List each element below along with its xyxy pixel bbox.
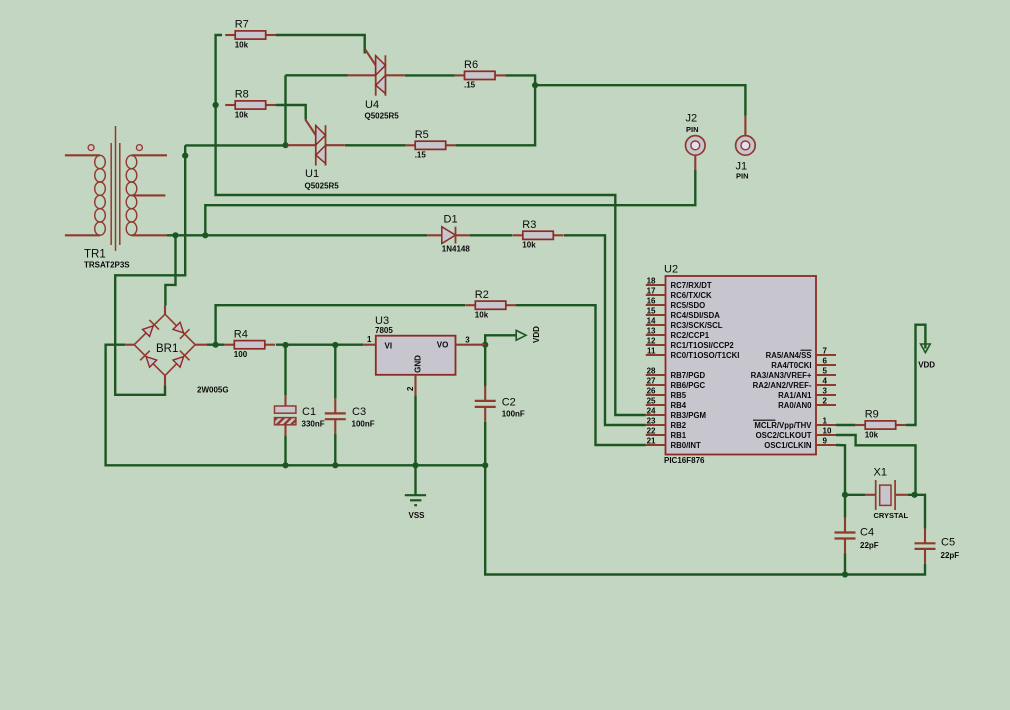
svg-text:MCLR/Vpp/THV: MCLR/Vpp/THV <box>754 421 812 430</box>
svg-text:18: 18 <box>647 277 656 286</box>
svg-text:X1: X1 <box>874 467 887 479</box>
svg-text:.15: .15 <box>415 151 427 160</box>
svg-text:RC0/T1OSO/T1CKI: RC0/T1OSO/T1CKI <box>671 351 740 360</box>
svg-text:1: 1 <box>367 335 372 344</box>
svg-text:24: 24 <box>647 407 656 416</box>
svg-text:OSC2/CLKOUT: OSC2/CLKOUT <box>756 431 812 440</box>
svg-text:4: 4 <box>823 377 828 386</box>
svg-text:3: 3 <box>465 336 470 345</box>
svg-text:RA0/AN0: RA0/AN0 <box>778 401 812 410</box>
svg-text:15: 15 <box>647 307 656 316</box>
svg-text:RC2/CCP1: RC2/CCP1 <box>671 331 710 340</box>
svg-text:RB2: RB2 <box>671 421 687 430</box>
svg-text:RC5/SDO: RC5/SDO <box>671 301 706 310</box>
svg-text:3: 3 <box>823 387 828 396</box>
svg-text:25: 25 <box>647 397 656 406</box>
svg-text:10k: 10k <box>475 311 489 320</box>
svg-text:1N4148: 1N4148 <box>442 245 471 254</box>
svg-text:28: 28 <box>647 367 656 376</box>
svg-text:Q5025R5: Q5025R5 <box>365 112 400 121</box>
svg-text:PIN: PIN <box>686 125 699 134</box>
svg-text:RB6/PGC: RB6/PGC <box>671 381 706 390</box>
svg-text:10k: 10k <box>235 40 249 49</box>
svg-text:10k: 10k <box>522 241 536 250</box>
svg-text:PIN: PIN <box>736 171 749 180</box>
svg-text:R5: R5 <box>415 129 429 141</box>
svg-text:22pF: 22pF <box>860 541 879 550</box>
svg-text:RA4/T0CKI: RA4/T0CKI <box>771 361 811 370</box>
svg-text:BR1: BR1 <box>156 343 178 355</box>
svg-text:RB3/PGM: RB3/PGM <box>671 411 707 420</box>
svg-text:.15: .15 <box>464 81 476 90</box>
svg-text:100nF: 100nF <box>502 409 525 418</box>
svg-text:R3: R3 <box>522 219 536 231</box>
svg-text:10k: 10k <box>865 430 879 439</box>
svg-text:14: 14 <box>647 317 656 326</box>
svg-text:RC3/SCK/SCL: RC3/SCK/SCL <box>671 321 723 330</box>
svg-text:RC6/TX/CK: RC6/TX/CK <box>671 291 713 300</box>
svg-text:C3: C3 <box>352 406 366 418</box>
svg-text:5: 5 <box>823 367 828 376</box>
svg-text:21: 21 <box>647 437 656 446</box>
svg-text:C4: C4 <box>860 527 874 539</box>
svg-text:Q5025R5: Q5025R5 <box>305 182 340 191</box>
svg-text:RB5: RB5 <box>671 391 687 400</box>
svg-text:10k: 10k <box>235 110 249 119</box>
svg-text:6: 6 <box>823 357 828 366</box>
svg-text:100nF: 100nF <box>352 420 375 429</box>
svg-text:7805: 7805 <box>375 326 393 335</box>
svg-text:J2: J2 <box>686 113 698 125</box>
svg-text:R8: R8 <box>235 89 249 101</box>
svg-text:23: 23 <box>647 417 656 426</box>
svg-text:VDD: VDD <box>918 361 935 370</box>
svg-text:13: 13 <box>647 327 656 336</box>
svg-text:U2: U2 <box>664 264 678 276</box>
svg-text:R7: R7 <box>235 19 249 31</box>
svg-text:12: 12 <box>647 337 656 346</box>
svg-text:2W005G: 2W005G <box>197 386 229 395</box>
svg-text:26: 26 <box>647 387 656 396</box>
svg-text:PIC16F876: PIC16F876 <box>664 456 705 465</box>
svg-text:10: 10 <box>823 427 832 436</box>
svg-text:R4: R4 <box>234 328 248 340</box>
svg-text:R9: R9 <box>865 409 879 421</box>
svg-text:27: 27 <box>647 377 656 386</box>
svg-text:TRSAT2P3S: TRSAT2P3S <box>84 261 130 270</box>
svg-text:VSS: VSS <box>409 511 426 520</box>
svg-text:17: 17 <box>647 287 656 296</box>
svg-text:RA1/AN1: RA1/AN1 <box>778 391 812 400</box>
svg-text:R2: R2 <box>475 289 489 301</box>
svg-text:VO: VO <box>437 341 449 350</box>
svg-text:D1: D1 <box>444 214 458 226</box>
svg-text:RB1: RB1 <box>671 431 687 440</box>
svg-text:7: 7 <box>823 347 828 356</box>
svg-text:RC4/SDI/SDA: RC4/SDI/SDA <box>671 311 721 320</box>
svg-text:22pF: 22pF <box>941 551 960 560</box>
svg-text:VDD: VDD <box>532 326 541 343</box>
svg-text:RA2/AN2/VREF-: RA2/AN2/VREF- <box>753 381 812 390</box>
svg-text:RB7/PGD: RB7/PGD <box>671 371 706 380</box>
svg-text:TR1: TR1 <box>84 249 106 261</box>
svg-text:RC7/RX/DT: RC7/RX/DT <box>671 281 712 290</box>
svg-text:CRYSTAL: CRYSTAL <box>874 511 909 520</box>
svg-text:RA5/AN4/SS: RA5/AN4/SS <box>766 351 812 360</box>
svg-text:2: 2 <box>823 397 828 406</box>
svg-text:16: 16 <box>647 297 656 306</box>
svg-text:RB0/INT: RB0/INT <box>671 441 702 450</box>
svg-text:C1: C1 <box>302 406 316 418</box>
svg-text:R6: R6 <box>464 59 478 71</box>
svg-text:RB4: RB4 <box>671 401 687 410</box>
svg-text:22: 22 <box>647 427 656 436</box>
svg-text:9: 9 <box>823 437 828 446</box>
svg-text:330nF: 330nF <box>302 420 325 429</box>
svg-text:C2: C2 <box>502 397 516 409</box>
svg-text:RC1/T1OSI/CCP2: RC1/T1OSI/CCP2 <box>671 341 735 350</box>
svg-text:OSC1/CLKIN: OSC1/CLKIN <box>764 441 812 450</box>
svg-text:2: 2 <box>406 386 415 391</box>
svg-text:RA3/AN3/VREF+: RA3/AN3/VREF+ <box>751 371 812 380</box>
svg-text:GND: GND <box>414 355 423 373</box>
svg-text:U1: U1 <box>305 168 319 180</box>
svg-text:100: 100 <box>234 350 248 359</box>
svg-text:11: 11 <box>647 347 656 356</box>
svg-text:U4: U4 <box>365 99 379 111</box>
svg-text:1: 1 <box>823 417 828 426</box>
svg-text:C5: C5 <box>941 536 955 548</box>
svg-text:VI: VI <box>385 341 393 350</box>
